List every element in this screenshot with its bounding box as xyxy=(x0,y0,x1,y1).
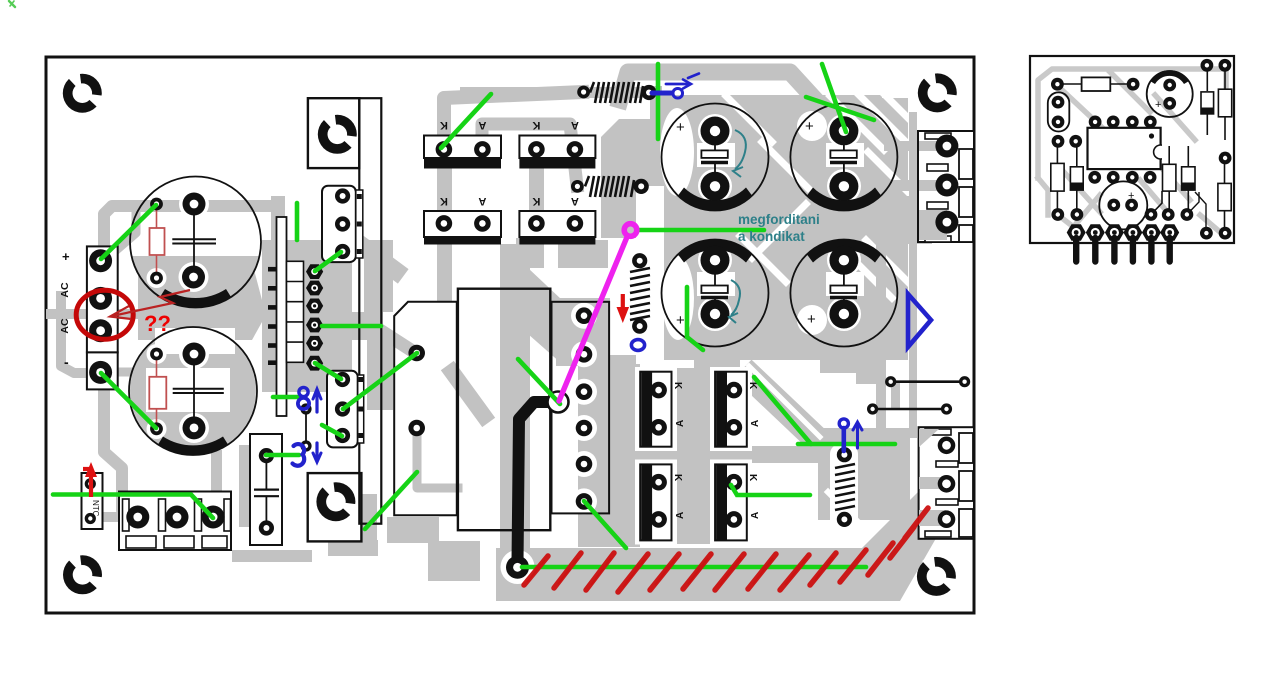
white relief stripes bottom pour xyxy=(749,366,820,437)
capacitor C1 symbol xyxy=(193,208,195,273)
terminal block X1 body xyxy=(119,492,231,551)
connector J2 right top body xyxy=(918,131,974,242)
blue mark 8 up xyxy=(299,387,308,396)
resistor R11 xyxy=(1218,89,1231,117)
terminal block pads xyxy=(126,506,149,529)
svg-text:A: A xyxy=(478,195,486,207)
wire green long from ring xyxy=(637,228,764,233)
wire green cap3 check xyxy=(687,287,703,350)
wire green bottom left long xyxy=(53,495,213,519)
wire green jumper bottom xyxy=(266,453,299,458)
wire green heatsink diag lower xyxy=(365,472,417,529)
transistor Q2 body TO220 upper xyxy=(322,186,356,262)
blue marks xyxy=(293,74,932,466)
capacitor C7 big circle 2 xyxy=(790,104,897,211)
svg-text:K: K xyxy=(440,195,448,207)
connector J3 pads xyxy=(938,437,956,455)
capacitor C8 big circle 3 xyxy=(662,240,769,347)
wire green Q3 pad3 xyxy=(322,425,342,436)
IC U1 body xyxy=(1088,128,1161,169)
film capacitor C5 symbol xyxy=(265,461,267,489)
wire green vertical small xyxy=(295,203,300,240)
svg-text:+: + xyxy=(805,118,814,135)
wire thick black trace xyxy=(518,402,557,562)
resistor R1 red bleed xyxy=(156,208,158,274)
bridge pads row2 xyxy=(436,215,453,232)
teal notes xyxy=(738,212,820,244)
wire green to magenta via xyxy=(518,359,560,404)
transformer body xyxy=(458,289,550,531)
mounting hole top-right xyxy=(918,72,958,112)
capacitor C2 polarity arc xyxy=(158,437,228,455)
wire minus pad stub xyxy=(118,359,172,372)
mounting hole mid-top box xyxy=(318,113,358,153)
wire trace left C-shape xyxy=(104,206,277,517)
resistor R10 xyxy=(1082,77,1111,91)
wire plus pad stub xyxy=(114,212,136,252)
white clearances cap pads right xyxy=(698,114,732,148)
white clearance bottom pad of thick trace xyxy=(501,550,535,584)
SIP strip bar xyxy=(277,217,287,416)
wire polygon lower diagonal xyxy=(452,372,484,416)
capacitor C1 left big circle xyxy=(130,177,261,308)
magenta wire xyxy=(559,224,637,401)
SIP hex pads xyxy=(306,264,323,279)
wire green corner mark xyxy=(9,1,15,7)
copper pour behind SIP strip xyxy=(262,240,352,392)
wire jumper small xyxy=(305,409,307,446)
wire green D8 run xyxy=(731,485,810,495)
diode D12 xyxy=(1182,167,1195,190)
wire link W2 xyxy=(873,408,947,411)
copper pour bottom band xyxy=(496,476,958,601)
white clearance around coil4 xyxy=(830,444,858,530)
capacitor C6 pads xyxy=(701,117,730,146)
wire ntc link xyxy=(90,512,140,522)
svg-text:+: + xyxy=(807,311,816,328)
svg-text:A: A xyxy=(750,420,761,427)
bridge block D3 body xyxy=(424,211,501,237)
wire green hex1 to Q2 xyxy=(315,252,341,271)
NTC body xyxy=(82,473,103,529)
capacitor C8 pads xyxy=(701,246,730,275)
wire coil1 feed xyxy=(460,87,656,98)
white clearance cap A/B pads xyxy=(179,189,209,219)
wire terminal riser xyxy=(211,450,222,517)
svg-text:A: A xyxy=(571,119,579,131)
blue arrow right top xyxy=(666,83,688,86)
red marks xyxy=(76,290,629,497)
wire trace AC horizontal xyxy=(46,309,238,319)
mounting hole bottom-left xyxy=(63,554,103,594)
connector J3 copper reach xyxy=(919,429,939,447)
inductor L3 coil vertical xyxy=(630,268,650,320)
transistor Q3 body TO220 lower xyxy=(327,371,358,448)
white clearance column pads xyxy=(571,303,597,329)
inductor L2 pads xyxy=(571,180,584,193)
inductor L1 coil top xyxy=(590,82,643,103)
wire right connector feeds xyxy=(884,141,944,151)
blue link to coil1 xyxy=(652,91,672,96)
capsule component xyxy=(1048,92,1070,131)
svg-text:A: A xyxy=(571,195,579,207)
bridge block D4 body xyxy=(519,211,595,237)
inductor L1 pads xyxy=(577,86,590,99)
svg-text:+: + xyxy=(1128,190,1134,202)
wire green minus to capB xyxy=(101,373,156,428)
strip tick marks xyxy=(268,267,277,365)
wire green heatsink diag xyxy=(343,353,417,409)
wire green jumper top xyxy=(273,395,301,400)
copper pour bottom middle : between diode blocks xyxy=(668,368,718,452)
teal curly cap3 xyxy=(729,280,740,323)
transistor T1 circle xyxy=(1147,71,1193,117)
svg-text:K: K xyxy=(532,119,540,131)
resistor R2 red bleed xyxy=(156,358,158,424)
blue mark 3 down xyxy=(293,444,305,466)
diode block pads xyxy=(650,382,667,399)
copper pour behind column pads xyxy=(556,298,610,366)
diode block D5 body xyxy=(640,372,671,447)
resistor R12 xyxy=(1051,163,1064,191)
red scribble hatch xyxy=(524,508,928,592)
wire right side verticals xyxy=(876,242,886,432)
copper pour cap A lower segment xyxy=(132,256,259,307)
wire green vertical tall xyxy=(656,64,661,139)
diode block D7 body xyxy=(640,464,671,540)
blue ellipse under coil3 xyxy=(631,340,644,351)
copper pour bottom column xyxy=(578,355,640,547)
wire SIP to heatsink diagonal xyxy=(350,237,396,271)
red arrow down coil3 xyxy=(617,294,630,323)
svg-text:A: A xyxy=(675,512,686,519)
green marks xyxy=(9,1,895,567)
diode block D6 body xyxy=(715,372,747,447)
bridge block D1 body xyxy=(424,136,501,159)
transformer pad column body xyxy=(552,302,610,514)
wire strip riser xyxy=(271,196,285,244)
svg-text:A: A xyxy=(750,512,761,519)
wire green column diag xyxy=(584,501,626,548)
blue mark coil4 xyxy=(839,419,848,428)
capacitor C7 pads xyxy=(829,116,858,145)
diode D10 xyxy=(1201,92,1214,114)
mounting box bottom xyxy=(308,473,362,541)
white clearance cap symbols xyxy=(697,143,735,167)
svg-text:+: + xyxy=(1155,99,1161,111)
copper pour big top-right mass xyxy=(650,95,908,360)
jumper pads xyxy=(300,403,311,414)
wire bridge column links xyxy=(437,160,452,212)
connector J3 right bottom body xyxy=(919,427,974,539)
capacitor C2 left big circle xyxy=(129,327,257,455)
svg-text:A: A xyxy=(675,420,686,427)
mounting hole top-left xyxy=(63,72,103,112)
wire bridge1 riser left xyxy=(444,92,582,152)
connector J2 pads xyxy=(935,135,958,158)
capacitor C2 pads xyxy=(150,348,163,361)
thick trace end pad xyxy=(506,556,529,579)
wire coil1 to cap2 top run xyxy=(648,86,656,98)
red arrow up NTC xyxy=(83,462,97,497)
copper blob left of bottom band xyxy=(428,541,480,581)
teal curly cap1 xyxy=(733,130,746,177)
svg-text:AC: AC xyxy=(59,282,71,298)
resistor R14 xyxy=(1218,183,1231,210)
white reliefs in pour xyxy=(636,62,908,364)
heatsink polygon pads xyxy=(408,345,425,362)
svg-text:megforditani: megforditani xyxy=(738,212,820,227)
bridge pads row1 xyxy=(436,141,453,158)
svg-text:AC: AC xyxy=(59,318,71,334)
copper pour right of transformer xyxy=(528,268,562,364)
svg-text:K: K xyxy=(747,474,758,482)
film capacitor C5 body xyxy=(250,434,282,545)
copper pour around coil4 xyxy=(818,428,910,520)
SIP cells xyxy=(287,261,304,362)
svg-text:a kondikat: a kondikat xyxy=(738,229,805,244)
wire green horizontal mid xyxy=(322,324,381,329)
svg-text:K: K xyxy=(672,474,683,482)
svg-text:-: - xyxy=(64,354,69,370)
svg-text:K: K xyxy=(672,382,683,390)
wire film cap surroundings xyxy=(239,445,250,527)
wire bridge1 riser right xyxy=(482,124,577,186)
transistor Q3 pads xyxy=(335,372,350,387)
wire green cap2 diags xyxy=(822,64,846,132)
small board gray frame trace xyxy=(1038,69,1226,232)
wire green bridge diag xyxy=(441,94,491,148)
blue triangle xyxy=(908,294,931,347)
diode block D8 body xyxy=(715,464,747,540)
red arrow query xyxy=(112,290,190,316)
heatsink left polygon xyxy=(394,302,457,515)
resistor R13 xyxy=(1163,164,1176,191)
connecting leads xyxy=(1187,192,1199,215)
connector J2 copper reach xyxy=(919,141,947,151)
main board outline xyxy=(46,57,974,613)
wire left edge vertical xyxy=(61,296,100,373)
capacitor C2 symbol xyxy=(193,358,195,424)
capacitor C1 pads xyxy=(150,198,163,211)
wire green bottom long xyxy=(522,565,866,570)
capacitor C9 pads xyxy=(829,246,858,275)
transformer column pads xyxy=(576,307,593,324)
svg-text:+: + xyxy=(676,119,685,136)
transistor Q2 pads xyxy=(335,188,350,203)
copper pour right of bridge2 xyxy=(601,119,672,238)
mounting hole bottom-right xyxy=(917,556,957,596)
bridge block D2 body xyxy=(519,136,595,159)
svg-text:+: + xyxy=(62,249,70,264)
svg-text:NTC: NTC xyxy=(91,500,100,517)
capacitor C1 polarity arc xyxy=(160,289,231,307)
mounting box top xyxy=(308,98,359,168)
tall rail bar xyxy=(359,98,381,524)
svg-text:A: A xyxy=(478,119,486,131)
inductor L4 coil vertical right xyxy=(835,464,855,510)
via ring magenta target xyxy=(548,392,569,413)
film capacitor C5 pads xyxy=(259,448,274,463)
copper pour cap B circle xyxy=(130,328,256,454)
inductor L4 pads xyxy=(837,447,852,462)
wire green capA to plus xyxy=(101,205,156,259)
svg-text:??: ?? xyxy=(144,311,171,336)
wire under transformer vertical xyxy=(500,244,530,560)
wire green hex6 to Q3 xyxy=(315,363,341,379)
copper pour under left heatsink polygon xyxy=(364,240,393,312)
header pins xyxy=(1067,224,1180,261)
red circle query xyxy=(76,290,133,339)
connector J1 pads xyxy=(89,249,112,272)
diode clearance margins xyxy=(635,367,677,451)
connector J1 left body xyxy=(87,246,118,352)
NTC pads xyxy=(85,478,96,489)
capacitor C6 big circle 1 xyxy=(662,104,769,211)
copper pour between caps A B xyxy=(138,262,262,340)
diode D11 xyxy=(1070,167,1083,190)
small board outline xyxy=(1030,56,1234,243)
inductor L2 coil middle xyxy=(585,176,634,197)
svg-text:+: + xyxy=(676,312,685,329)
inductor L3 pads xyxy=(632,253,647,268)
small board pads xyxy=(1051,78,1064,91)
transistor T2 circle xyxy=(1099,181,1147,229)
wire link pads xyxy=(885,376,896,387)
svg-text:K: K xyxy=(440,119,448,131)
wire diag right of diode blocks xyxy=(752,378,828,450)
wire link W1 xyxy=(891,380,965,383)
capacitor C9 big circle 4 xyxy=(790,240,897,347)
wire green big diag right xyxy=(754,377,811,444)
mounting hole mid-bottom box xyxy=(316,481,356,521)
svg-text:K: K xyxy=(532,195,540,207)
